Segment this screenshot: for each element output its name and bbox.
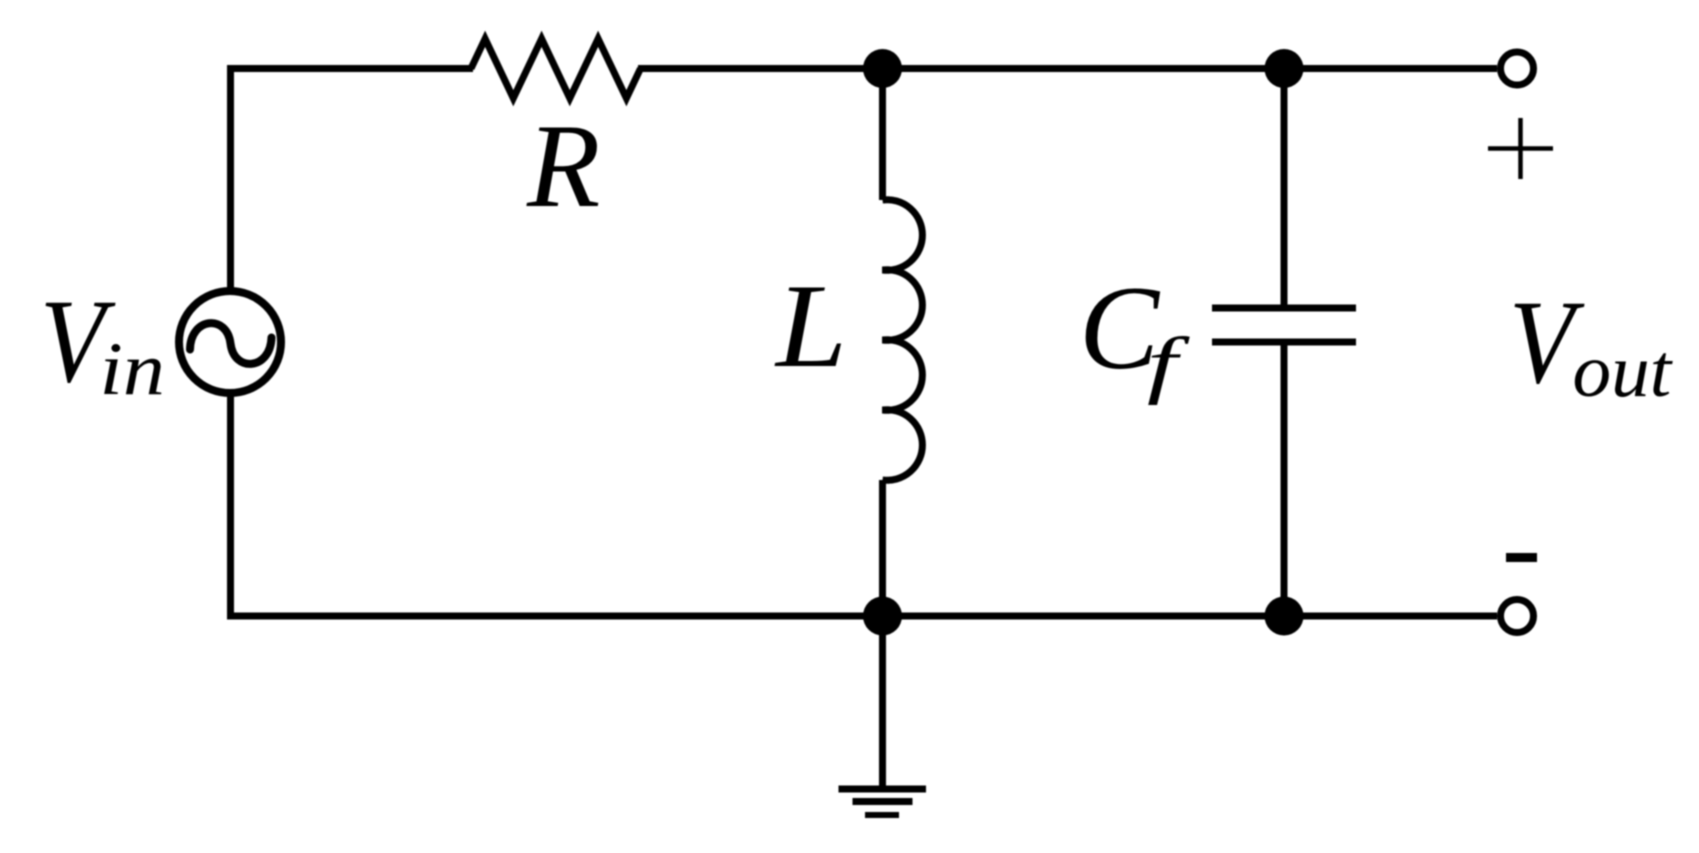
svg-text:out: out [1573,330,1674,413]
capacitor Cf top plate [1212,305,1356,312]
wire left rail upper [227,65,234,294]
svg-text:R: R [526,99,600,232]
svg-text:L: L [774,260,847,393]
wire capacitor branch bottom [1281,345,1288,616]
wire ground stem [879,616,886,789]
ground bar 3 [865,812,899,818]
svg-text:in: in [100,328,165,411]
node junction dot top-right [1265,49,1304,88]
wire left rail lower [227,392,234,620]
node junction dot bottom-center [863,597,902,636]
wire inductor branch bottom [879,480,886,616]
inductor L coil [883,200,923,481]
node junction dot bottom-right [1265,597,1304,636]
wire top rail right (resistor to top terminal) [638,65,1497,72]
plus sign [1488,118,1553,179]
node junction dot top-center [863,49,902,88]
ground bar 2 [853,798,913,805]
minus sign [1506,553,1537,562]
wire inductor branch top [879,69,886,201]
wire bottom rail [227,613,1497,620]
resistor R [471,39,641,98]
AC source Vin circle [179,291,281,393]
wire top rail left (Vin to resistor) [230,65,473,72]
AC source Vin sine wave [190,323,272,364]
capacitor Cf bottom plate [1212,339,1356,346]
ground bar 1 [839,786,927,793]
output terminal bottom (open circle) [1501,600,1534,633]
output terminal top (open circle) [1501,52,1534,85]
wire capacitor branch top [1281,69,1288,306]
